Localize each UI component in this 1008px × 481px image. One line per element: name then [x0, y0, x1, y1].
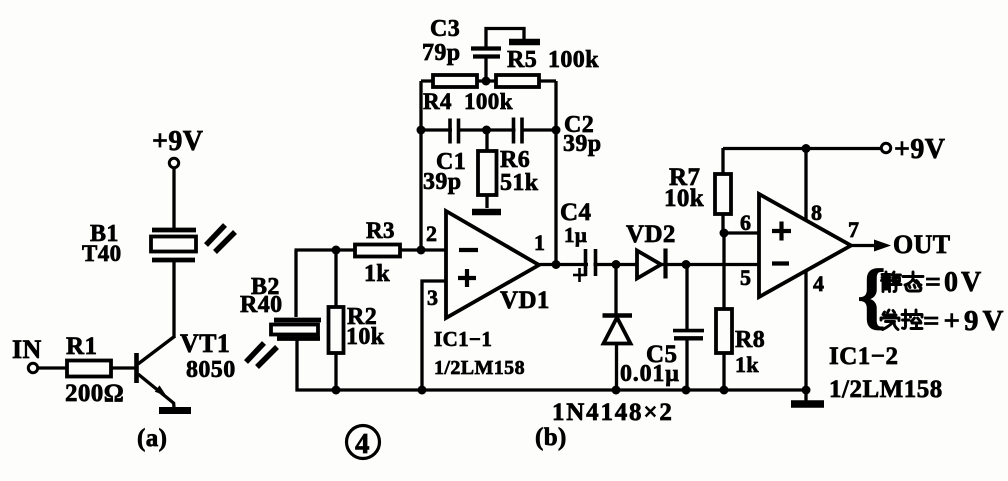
svg-text:1k: 1k [364, 261, 390, 287]
svg-text:1k: 1k [735, 352, 759, 377]
svg-text:100k: 100k [548, 47, 599, 73]
svg-text:8050: 8050 [186, 357, 236, 383]
svg-text:VD2: VD2 [626, 221, 676, 248]
svg-text:8: 8 [811, 200, 822, 225]
wire feedback top row R4 R5 [421, 79, 556, 82]
ground (a) [159, 407, 191, 414]
capacitor C2 [514, 118, 523, 144]
reception marks at B2 [246, 343, 277, 367]
resistor R6 [478, 130, 497, 208]
junction R7/pin6 [720, 229, 729, 238]
diode VD1 (vertical) [603, 265, 633, 391]
wire VT1 base to R1 [110, 366, 135, 369]
svg-text:0.01μ: 0.01μ [620, 361, 680, 387]
capacitor C1 [450, 119, 459, 144]
svg-text:200Ω: 200Ω [65, 380, 124, 407]
svg-text:T40: T40 [82, 241, 122, 266]
resistor R1 [67, 361, 111, 377]
capacitor C3 [471, 30, 501, 81]
svg-text:6: 6 [740, 210, 751, 235]
resistor R5 [496, 75, 539, 87]
resistor R2 [329, 250, 344, 390]
figure number 4 [347, 426, 380, 461]
junction VD1 to rail [612, 386, 621, 395]
svg-text:+9V: +9V [152, 126, 203, 157]
wire B1 to VT1 collector [172, 262, 175, 338]
junction row right [552, 126, 561, 135]
svg-text:OUT: OUT [893, 230, 951, 259]
terminal IN [28, 363, 37, 372]
resistor R7 [715, 148, 731, 234]
svg-text:1/2LM158: 1/2LM158 [434, 357, 525, 379]
svg-text:R40: R40 [240, 292, 283, 318]
wire feedback left vertical [419, 81, 422, 250]
op-amp IC1-1 [446, 211, 539, 318]
wire C1 C2 row [421, 128, 556, 131]
junction R2 to rail [332, 386, 341, 395]
svg-text:2: 2 [426, 221, 437, 246]
ground (b) [791, 390, 824, 404]
resistor R4 [433, 75, 477, 87]
svg-text:IC1−2: IC1−2 [829, 343, 899, 370]
svg-text:1/2LM158: 1/2LM158 [829, 376, 943, 403]
junction R4/R5/C3 [482, 77, 491, 86]
resistor R8 [716, 309, 732, 391]
capacitor C5 [673, 265, 704, 391]
svg-text:7: 7 [848, 217, 859, 242]
svg-text:51k: 51k [500, 170, 539, 196]
terminal +9V (a) [169, 158, 178, 167]
svg-text:10k: 10k [664, 185, 704, 212]
svg-text:IN: IN [12, 335, 42, 364]
junction VD2/C5/pin5 [682, 260, 691, 269]
wire R7 bottom to R8 vertical [722, 233, 725, 310]
label jingtai=0V [882, 267, 985, 298]
svg-text:1: 1 [534, 230, 545, 255]
svg-text:=+9V: =+9V [923, 305, 1008, 337]
transducer B2 [271, 320, 321, 339]
terminal +9V (b) [881, 143, 890, 152]
junction B2/R2/R3 [332, 246, 341, 255]
svg-text:3: 3 [427, 285, 438, 310]
svg-text:+9V: +9V [894, 134, 945, 165]
svg-text:IC1−1: IC1−1 [434, 327, 492, 351]
ground at R6 [472, 209, 501, 216]
svg-text:R4: R4 [423, 89, 452, 114]
junction output/feedback [552, 260, 561, 269]
wire B2 bottom lead [295, 340, 298, 392]
ground at C3 [509, 39, 540, 46]
wire output row [539, 263, 759, 266]
svg-text:R3: R3 [366, 218, 395, 243]
op-amp IC1-2 [759, 194, 851, 297]
wire +9V terminal to B1 [172, 168, 175, 228]
svg-text:1μ: 1μ [564, 223, 587, 247]
svg-text:79p: 79p [422, 40, 461, 66]
emission marks at B1 [206, 225, 235, 252]
wire pin8 [804, 148, 807, 220]
svg-text:C4: C4 [560, 199, 591, 226]
arrow output [874, 240, 891, 252]
junction pin4 to rail [802, 386, 811, 395]
svg-text:C3: C3 [430, 16, 460, 42]
resistor R3 [355, 245, 400, 257]
svg-text:VT1: VT1 [180, 329, 230, 358]
svg-text:100k: 100k [464, 89, 513, 114]
transducer B1 [151, 230, 196, 260]
junction pin8 on rail [802, 144, 811, 153]
svg-text:VD1: VD1 [500, 287, 550, 314]
wire pin4 [804, 270, 807, 390]
svg-text:1N4148×2: 1N4148×2 [552, 399, 674, 426]
svg-text:4: 4 [355, 428, 370, 460]
svg-text:(a): (a) [137, 425, 167, 452]
wire op-amp pin3 to rail [422, 281, 446, 390]
transistor VT1 [137, 336, 176, 407]
svg-text:R8: R8 [735, 327, 765, 353]
svg-text:(b): (b) [535, 424, 567, 451]
junction C5 to rail [682, 386, 691, 395]
label shoukong=+9V [881, 305, 1008, 337]
junction C1/C2/R6 [482, 126, 491, 135]
junction feedback/pin2 [417, 246, 426, 255]
wire C3 to ground [486, 29, 524, 41]
wire R1 to IN terminal [38, 366, 67, 369]
bottom rail (b) [296, 388, 807, 391]
svg-text:R1: R1 [66, 333, 97, 360]
svg-text:R5: R5 [507, 47, 537, 73]
capacitor C4 electrolytic [573, 249, 596, 282]
junction R8 to rail [720, 386, 729, 395]
junction pin3 wire to rail [418, 386, 427, 395]
wire pin6 [724, 231, 760, 234]
svg-text:4: 4 [813, 271, 824, 296]
svg-text:39p: 39p [563, 131, 602, 157]
svg-text:5: 5 [740, 265, 751, 290]
svg-text:=0V: =0V [925, 267, 984, 298]
junction C4/VD1/VD2 [612, 260, 621, 269]
diode VD2 [637, 249, 666, 279]
wire input row to op-amp pin2 [295, 248, 447, 251]
wire feedback right vertical [554, 81, 557, 265]
junction row left [417, 126, 426, 135]
wire pin7 output [851, 244, 876, 247]
top supply rail (b) [723, 147, 883, 150]
svg-text:39p: 39p [423, 169, 462, 195]
svg-text:{: { [857, 255, 887, 337]
wire B2 top lead [294, 250, 297, 317]
svg-text:10k: 10k [346, 324, 385, 350]
